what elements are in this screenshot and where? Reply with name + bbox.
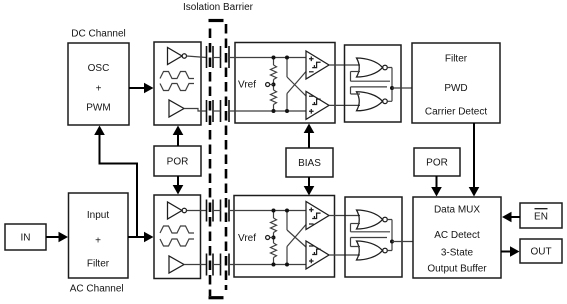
block: lower TX buffer box	[154, 195, 201, 279]
wire: data mux to OUT	[501, 246, 520, 257]
svg-text:POR: POR	[167, 157, 189, 168]
wire: lower cross diagonal to comparator D	[287, 230, 306, 247]
svg-text:Filter: Filter	[87, 259, 110, 270]
block: upper TX buffer box	[154, 42, 201, 125]
NOR gate G4: lower latch bottom gate	[357, 241, 388, 260]
wire: lower buffer output to isolation capacitor	[184, 264, 207, 266]
wire: lower cross-coupling column	[285, 209, 289, 267]
terminal: upper Vref tap	[266, 83, 274, 87]
wire: comparator B output to latch	[329, 104, 360, 106]
isolation barrier: top cap dash	[209, 19, 224, 22]
waveform icon: lower channel carrier waveforms	[160, 226, 194, 246]
isolation barrier: left dashed line	[209, 29, 212, 297]
block U1: OSC + PWM	[68, 43, 129, 125]
wire: comparator A output to latch	[329, 64, 360, 66]
wire: inverter output to isolation capacitor	[187, 56, 207, 58]
wire: EN to data mux	[502, 212, 520, 223]
block: EN terminal (active low)	[520, 203, 562, 228]
block: OUT terminal	[520, 239, 562, 263]
block: Filter / PWD / Carrier Detect	[412, 43, 500, 123]
block: lower NOR latch box	[345, 197, 402, 277]
comparator U4: lower channel schmitt comparator C	[306, 202, 329, 230]
wire: upper cross diagonal to upper comparator	[287, 72, 306, 94]
svg-text:Vref: Vref	[238, 80, 256, 91]
svg-text:3-State: 3-State	[441, 248, 474, 259]
wire: buffer output to isolation capacitor	[184, 109, 207, 112]
svg-text:PWM: PWM	[86, 103, 110, 114]
block: IN terminal	[5, 224, 46, 250]
svg-text:IN: IN	[21, 233, 31, 244]
svg-text:BIAS: BIAS	[298, 158, 321, 169]
isolation barrier: right dashed line	[225, 24, 228, 290]
NOR gate G2: upper latch bottom gate	[357, 92, 388, 111]
svg-text:Isolation Barrier: Isolation Barrier	[183, 2, 254, 13]
wire: left POR to upper TX buffers	[173, 126, 184, 147]
wire: upper latch output to filter block	[392, 87, 412, 89]
svg-text:AC Channel: AC Channel	[70, 284, 124, 295]
wire: upper cross diagonal to lower comparator	[287, 77, 306, 96]
svg-text:Output Buffer: Output Buffer	[427, 263, 487, 274]
comparator U3: upper channel schmitt comparator B	[306, 91, 329, 119]
wire: upper latch output column and node	[387, 68, 394, 102]
comparator U2: upper channel schmitt comparator A	[306, 51, 329, 79]
svg-text:Vref: Vref	[238, 233, 256, 244]
wire: IN to input filter	[46, 232, 68, 243]
wire: lower latch output to data mux	[392, 241, 413, 243]
wire: comparator D output to lower latch	[329, 254, 360, 256]
capacitor C2: upper bottom-wire isolation caps (series pair)	[207, 100, 230, 122]
svg-text:OUT: OUT	[530, 247, 551, 258]
capacitor C4: lower bottom-wire isolation caps (series pair)	[207, 254, 230, 276]
terminal: lower Vref tap	[266, 236, 274, 240]
capacitor C3: lower top-wire isolation caps (series pair)	[207, 200, 230, 222]
wire: BIAS to lower receiver	[304, 177, 315, 196]
capacitor C1: upper top-wire isolation caps (series pair)	[207, 46, 230, 68]
wire: lower inverter output to isolation capacitor	[187, 210, 207, 212]
wire net: lower top rail	[229, 210, 306, 212]
block: BIAS	[286, 148, 333, 177]
block: lower receiver (Vref divider + comparators)	[234, 196, 335, 278]
block: Input + Filter (AC channel front end)	[69, 193, 129, 278]
NOR gate G3: lower latch top gate	[357, 210, 388, 229]
wire: input filter output to lower TX buffers	[128, 232, 154, 243]
node: upper rail-divider junctions	[272, 56, 276, 114]
svg-text:+: +	[95, 236, 101, 247]
wire: upper latch feedback bar 2	[351, 87, 388, 94]
comparator U5: lower channel schmitt comparator D	[306, 241, 329, 269]
wire: carrier detect to data mux	[469, 123, 480, 197]
buffer A4: lower channel non-inverting driver	[169, 256, 184, 273]
resistor R3: lower divider top	[271, 211, 277, 233]
wire: lower latch feedback bar 2	[351, 238, 388, 247]
wire: upper latch feedback bar 1	[351, 72, 391, 82]
svg-text:POR: POR	[426, 158, 448, 169]
svg-text:PWD: PWD	[444, 83, 467, 94]
svg-text:Filter: Filter	[445, 53, 468, 64]
svg-text:Input: Input	[87, 210, 109, 221]
wire: upper cross-coupling column	[285, 56, 289, 114]
waveform icon: upper channel carrier waveforms	[160, 72, 194, 91]
wire net: lower bottom rail	[229, 264, 306, 266]
svg-text:DC Channel: DC Channel	[71, 29, 125, 40]
svg-text:AC Detect: AC Detect	[434, 230, 480, 241]
inverter A1: upper channel inverting driver	[168, 48, 187, 65]
buffer A2: upper channel non-inverting driver	[169, 100, 184, 117]
node: lower rail-divider junctions	[272, 209, 276, 267]
wire: branch from AC path up to DC channel PWM input	[94, 126, 137, 238]
block: POR (left)	[154, 146, 201, 176]
inverter A3: lower channel inverting driver	[168, 202, 187, 219]
svg-text:+: +	[96, 84, 102, 95]
NOR gate G1: upper latch top gate	[357, 58, 388, 77]
wire net: upper bottom rail	[229, 110, 306, 112]
resistor R2: upper divider bottom	[271, 80, 277, 112]
wire: lower cross diagonal to comparator C	[287, 225, 306, 247]
wire net: upper top rail	[229, 57, 306, 59]
svg-text:Carrier Detect: Carrier Detect	[425, 107, 487, 118]
resistor R4: lower divider bottom	[271, 233, 277, 265]
wire: lower latch feedback bar 1	[351, 224, 391, 232]
wire: BIAS to upper receiver	[304, 124, 315, 149]
wire: lower latch output column and node	[387, 220, 394, 251]
block: Data MUX / AC Detect / 3-State / Output Buffer	[413, 197, 501, 278]
svg-text:Data MUX: Data MUX	[434, 204, 480, 215]
wire: left POR to lower TX buffers	[173, 176, 184, 195]
block: upper NOR latch box	[345, 45, 402, 122]
wire: comparator C output to lower latch	[329, 215, 360, 217]
resistor R1: upper divider top	[271, 58, 277, 80]
block: upper receiver (Vref divider + comparators)	[235, 43, 335, 124]
svg-text:EN: EN	[534, 212, 548, 223]
wire: OSC/PWM output to upper TX buffers	[129, 83, 154, 94]
block: POR (right)	[414, 148, 460, 176]
isolation barrier: bottom cap dash	[209, 296, 224, 299]
svg-text:OSC: OSC	[88, 63, 110, 74]
wire: right POR to data mux	[431, 176, 442, 197]
